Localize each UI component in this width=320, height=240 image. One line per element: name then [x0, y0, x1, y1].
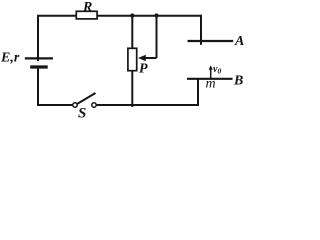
- wiper arrowhead: [138, 55, 146, 62]
- wire top-right vertical (to plate A): [200, 15, 202, 45]
- svg-text:A: A: [234, 34, 244, 49]
- switch S left contact: [73, 103, 77, 107]
- wire top-middle horizontal: [98, 15, 203, 17]
- junction dot at pot branch: [130, 13, 134, 17]
- switch S blade: [77, 93, 96, 104]
- wire bottom-left horizontal: [37, 104, 73, 106]
- wire bottom-right horizontal: [96, 104, 199, 106]
- svg-text:B: B: [233, 74, 243, 89]
- potentiometer branch vertical (top): [131, 16, 133, 48]
- svg-text:v0: v0: [213, 64, 221, 76]
- resistor R box: [76, 11, 97, 19]
- switch S right contact: [92, 103, 96, 107]
- plate B bar: [187, 78, 233, 80]
- svg-text:E,r: E,r: [0, 51, 20, 66]
- junction dot at wiper branch: [154, 13, 158, 17]
- potentiometer P body: [128, 48, 137, 70]
- svg-text:P: P: [139, 62, 148, 77]
- svg-text:R: R: [82, 0, 92, 15]
- wire left vertical (to battery): [37, 15, 39, 61]
- battery long plate: [25, 57, 53, 59]
- wiper branch vertical: [156, 16, 158, 58]
- battery short thick plate: [30, 65, 48, 68]
- potentiometer branch vertical (bottom): [131, 71, 133, 107]
- velocity arrow shaft: [210, 67, 212, 80]
- wire plate B down vertical: [197, 79, 199, 106]
- velocity arrowhead: [209, 65, 213, 70]
- svg-text:m: m: [206, 77, 216, 92]
- wire top-left horizontal: [38, 15, 77, 17]
- svg-text:S: S: [78, 106, 86, 121]
- wiper arrow horizontal: [145, 57, 157, 59]
- wire battery down vertical: [37, 69, 39, 106]
- plate A bar: [188, 40, 234, 42]
